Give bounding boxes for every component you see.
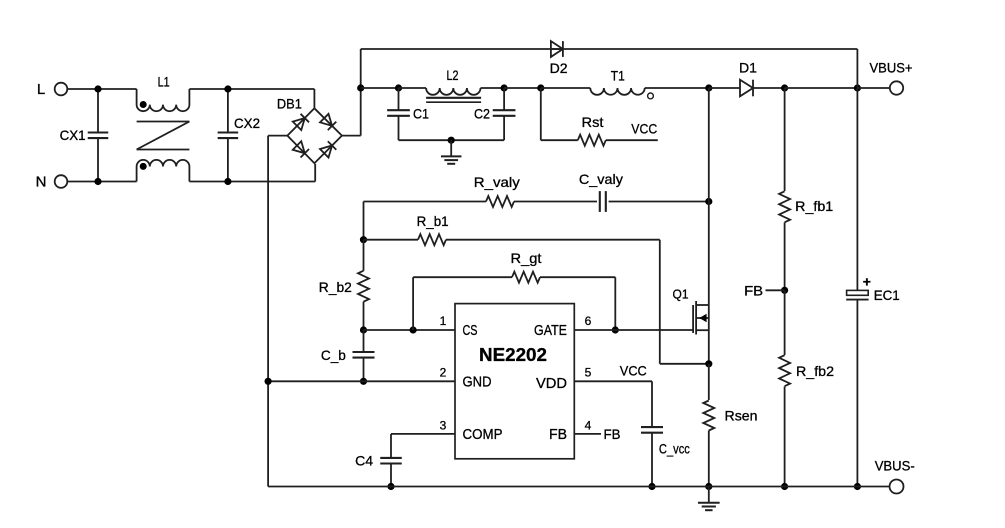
- svg-text:C_valy: C_valy: [579, 171, 623, 187]
- capacitor C_vcc: [641, 426, 663, 428]
- capacitor C_b: [363, 330, 365, 352]
- svg-text:1: 1: [440, 314, 447, 328]
- inductor L1 (common-mode choke): [137, 89, 190, 111]
- node GND left column: [265, 378, 272, 385]
- node CX2 top: [224, 85, 231, 92]
- resistor R_valy: [486, 196, 514, 207]
- wire Rst branch to T1: [541, 87, 591, 89]
- node EC1 top: [854, 84, 861, 91]
- terminal VBUS+: [890, 81, 903, 94]
- node filter ground: [448, 137, 455, 144]
- wire C1 to L2: [399, 87, 427, 89]
- wire top rail down to EC1 node: [856, 49, 858, 88]
- node R_b1 left: [360, 236, 367, 243]
- ground filter: [450, 140, 452, 156]
- wire VDD to VCC: [574, 380, 652, 382]
- svg-text:D2: D2: [550, 60, 568, 76]
- node R_fb2 bottom: [781, 483, 788, 490]
- capacitor EC1: [847, 290, 869, 295]
- resistor Rst: [578, 135, 606, 146]
- wire bridge minus down to bottom rail: [267, 136, 269, 487]
- svg-text:VDD: VDD: [536, 375, 567, 392]
- wire Rfb column top: [784, 88, 786, 191]
- svg-text:3: 3: [440, 419, 447, 433]
- svg-text:FB: FB: [549, 426, 567, 443]
- wire FB node to R_fb2: [784, 290, 786, 355]
- svg-text:T1: T1: [611, 68, 625, 84]
- node CS left: [360, 326, 367, 333]
- wire N terminal to choke: [67, 181, 136, 183]
- wire GND pin to left column: [268, 380, 455, 382]
- capacitor CX2: [227, 89, 229, 133]
- wire R_valy to C_valy: [514, 201, 597, 203]
- svg-text:GND: GND: [463, 373, 492, 390]
- wire drain node to D1: [709, 87, 740, 89]
- svg-text:Rsen: Rsen: [725, 408, 758, 424]
- node Rsen bottom: [705, 483, 712, 490]
- wire R_gt right drop: [614, 277, 616, 330]
- svg-text:EC1: EC1: [874, 287, 900, 303]
- svg-text:COMP: COMP: [463, 426, 503, 443]
- svg-text:Rst: Rst: [582, 114, 604, 130]
- capacitor C4: [380, 457, 402, 459]
- wire L to bridge top vertex: [313, 89, 315, 108]
- node R_fb1 top: [781, 84, 788, 91]
- node C_vcc bottom: [648, 483, 655, 490]
- capacitor C1: [398, 88, 400, 110]
- node bus left: [357, 84, 364, 91]
- wire VCC down to C_vcc: [651, 381, 653, 427]
- node source junction: [705, 360, 712, 367]
- wire CS wire: [364, 329, 456, 331]
- diode D2: [551, 48, 563, 50]
- svg-text:GATE: GATE: [534, 322, 567, 339]
- wire C_valy to drain column: [609, 201, 709, 203]
- node C2 top: [501, 84, 508, 91]
- wire R_b2 top: [363, 240, 365, 271]
- capacitor C_valy: [599, 191, 601, 212]
- wire R_b1 right: [446, 239, 660, 241]
- svg-text:R_b2: R_b2: [319, 279, 352, 295]
- wire bus riser to C1: [361, 87, 399, 89]
- svg-text:C_b: C_b: [321, 347, 346, 363]
- wire source to Rsen: [708, 364, 710, 400]
- wire EC1 to bottom rail: [856, 300, 858, 487]
- wire C2 to Rst branch: [504, 87, 541, 89]
- wire N to bridge bottom vertex: [314, 164, 316, 182]
- node CX1 bottom: [94, 178, 101, 185]
- wire Rst branch down: [540, 88, 542, 140]
- wire Rst to VCC: [606, 139, 658, 141]
- wire R_b1 down to source: [659, 240, 661, 364]
- wire bridge minus to left column: [268, 135, 287, 137]
- wire drain column: [708, 88, 710, 364]
- resistor R_fb2: [779, 355, 790, 386]
- inductor L2: [426, 88, 480, 95]
- wire R_fb1 to FB node: [784, 222, 786, 290]
- svg-text:NE2202: NE2202: [479, 345, 547, 365]
- wire T1 to drain node: [645, 87, 709, 89]
- resistor R_b2: [358, 271, 369, 302]
- svg-text:CS: CS: [463, 322, 478, 339]
- wire D1 to Rfb node: [753, 87, 785, 89]
- svg-text:N: N: [36, 174, 47, 191]
- svg-text:2: 2: [440, 366, 447, 380]
- node R_gt left: [410, 326, 417, 333]
- wire R_valy left: [364, 201, 487, 203]
- svg-text:C2: C2: [474, 106, 490, 122]
- svg-text:R_gt: R_gt: [511, 250, 542, 266]
- svg-text:VCC: VCC: [620, 363, 647, 379]
- svg-text:DB1: DB1: [277, 95, 302, 111]
- wire C_vcc to bottom rail: [651, 433, 653, 487]
- svg-text:5: 5: [585, 366, 592, 380]
- wire Rsen to bottom rail: [708, 431, 710, 487]
- wire R_gt left drop: [412, 277, 414, 330]
- wire EC1 node to VBUS+: [857, 87, 889, 89]
- svg-text:C_vcc: C_vcc: [659, 441, 690, 457]
- node Rst branch: [537, 84, 544, 91]
- capacitor C2: [503, 88, 505, 110]
- node C_valy right: [705, 198, 712, 205]
- wire choke to CX2 bottom: [189, 181, 315, 183]
- svg-text:R_fb2: R_fb2: [796, 363, 834, 379]
- node drain top: [705, 84, 712, 91]
- wire choke to CX2 top: [189, 88, 314, 90]
- wire R_fb2 to bottom rail: [784, 386, 786, 486]
- wire riser bridge plus to top rail: [360, 49, 362, 136]
- wire R_gt left: [413, 276, 512, 278]
- wire C4 to bottom rail: [390, 464, 392, 487]
- terminal N: [55, 175, 68, 188]
- wire L2 to C2: [481, 87, 505, 89]
- svg-text:R_valy: R_valy: [474, 174, 520, 190]
- transistor Q1: [692, 305, 694, 333]
- node R_gt right: [612, 326, 619, 333]
- svg-text:L1: L1: [158, 74, 170, 90]
- node C_b bottom: [360, 378, 367, 385]
- op-amp U1 NE2202 box: [455, 304, 574, 459]
- svg-text:Q1: Q1: [673, 287, 689, 302]
- svg-text:FB: FB: [604, 426, 621, 442]
- resistor Rsen: [703, 401, 714, 431]
- node EC1 bottom: [854, 483, 861, 490]
- svg-text:R_b1: R_b1: [417, 213, 449, 229]
- svg-text:C4: C4: [355, 453, 373, 469]
- svg-text:VCC: VCC: [631, 121, 657, 137]
- node CX2 bottom: [224, 178, 231, 185]
- diode D1: [740, 80, 753, 97]
- svg-text:6: 6: [585, 314, 592, 328]
- svg-text:D1: D1: [739, 60, 757, 76]
- node CX1 top: [94, 85, 101, 92]
- resistor R_fb1: [779, 191, 790, 222]
- terminal L: [55, 83, 68, 96]
- resistor R_b1: [418, 234, 446, 245]
- wire C1 bottom to C2 bottom: [399, 139, 505, 141]
- wire GATE to Q1 gate: [574, 329, 693, 331]
- svg-text:VBUS+: VBUS+: [870, 60, 913, 76]
- svg-text:4: 4: [585, 419, 592, 433]
- svg-text:CX1: CX1: [60, 127, 86, 143]
- svg-text:+: +: [863, 274, 871, 290]
- inductor T1: [590, 88, 644, 95]
- node C4 bottom: [387, 483, 394, 490]
- svg-text:CX2: CX2: [234, 115, 260, 131]
- net label FB at pin 4: [574, 433, 601, 435]
- wire R_b1 left: [364, 239, 419, 241]
- wire bridge plus to riser: [342, 135, 361, 137]
- svg-text:FB: FB: [744, 282, 763, 298]
- svg-text:L: L: [37, 81, 45, 98]
- wire top rail: [361, 48, 858, 50]
- svg-text:L2: L2: [447, 67, 459, 83]
- node C1 top: [395, 84, 402, 91]
- wire bottom rail: [268, 486, 889, 488]
- svg-text:VBUS-: VBUS-: [875, 458, 915, 474]
- wire R_valy left drop: [363, 202, 365, 240]
- wire L terminal to choke: [67, 88, 136, 90]
- capacitor CX1: [97, 89, 99, 133]
- wire COMP pin: [391, 433, 455, 435]
- wire R_gt right: [540, 276, 615, 278]
- resistor R_gt: [512, 272, 540, 283]
- wire EC1 column: [856, 88, 858, 290]
- ground main: [708, 487, 710, 503]
- terminal VBUS-: [890, 480, 904, 494]
- wire Rfb node to EC1 node: [785, 87, 858, 89]
- node FB: [781, 287, 788, 294]
- svg-text:C1: C1: [413, 106, 429, 122]
- wire R_b2 bottom: [363, 302, 365, 330]
- bridge rectifier DB1: [287, 108, 342, 163]
- svg-text:R_fb1: R_fb1: [795, 198, 833, 214]
